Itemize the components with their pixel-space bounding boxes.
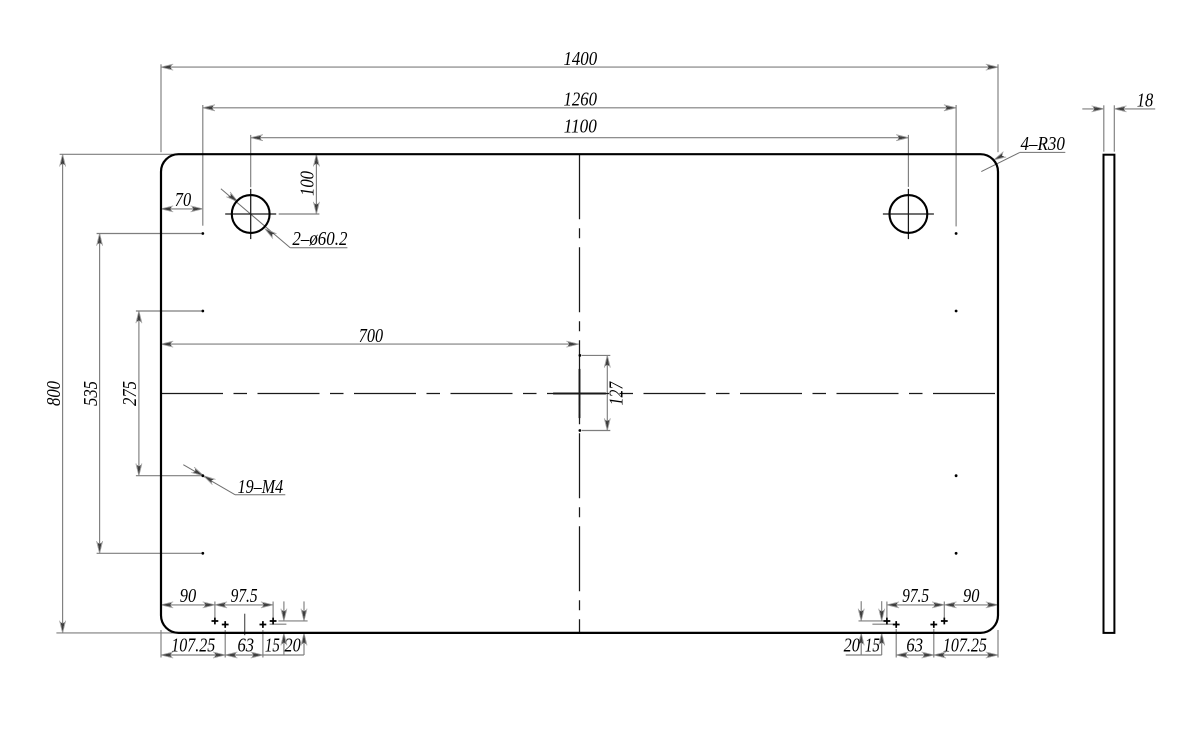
svg-text:800: 800 (44, 381, 65, 406)
svg-text:19–M4: 19–M4 (238, 477, 284, 498)
svg-text:1100: 1100 (564, 116, 597, 137)
svg-text:15: 15 (265, 636, 280, 657)
svg-text:20: 20 (844, 636, 860, 657)
svg-text:107.25: 107.25 (171, 636, 215, 657)
svg-text:4–R30: 4–R30 (1020, 134, 1065, 155)
svg-text:700: 700 (359, 326, 384, 347)
svg-text:15: 15 (865, 636, 880, 657)
svg-text:535: 535 (81, 381, 102, 406)
svg-text:127: 127 (606, 381, 627, 406)
svg-text:275: 275 (120, 381, 141, 406)
svg-text:107.25: 107.25 (943, 636, 987, 657)
svg-text:1260: 1260 (564, 89, 598, 110)
svg-text:90: 90 (180, 586, 197, 607)
svg-text:20: 20 (285, 636, 301, 657)
svg-text:97.5: 97.5 (231, 586, 258, 607)
svg-text:70: 70 (175, 190, 192, 211)
svg-text:100: 100 (297, 171, 318, 196)
svg-text:90: 90 (963, 586, 980, 607)
svg-text:97.5: 97.5 (902, 586, 929, 607)
svg-text:2–ø60.2: 2–ø60.2 (292, 229, 347, 250)
svg-text:18: 18 (1137, 90, 1154, 111)
svg-text:63: 63 (906, 636, 923, 657)
svg-text:63: 63 (238, 636, 255, 657)
svg-text:1400: 1400 (563, 49, 597, 70)
